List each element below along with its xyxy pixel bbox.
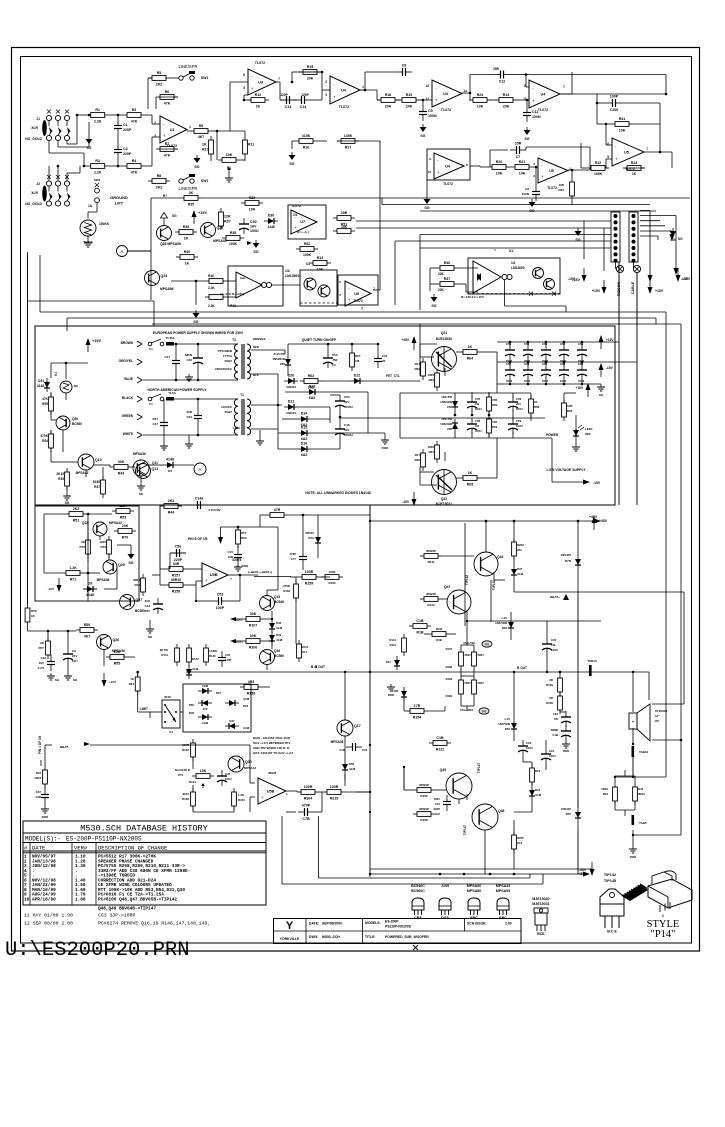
svg-text:R140: R140 [209,654,216,658]
svg-text:11R3: 11R3 [34,776,41,780]
svg-text:C1B: C1B [552,733,558,737]
svg-text:R70: R70 [122,536,129,540]
svg-text:C47: C47 [164,355,170,359]
svg-text:-45V: -45V [402,500,410,504]
svg-text:4148: 4148 [349,767,356,771]
svg-text:SW1: SW1 [201,76,208,80]
svg-text:4148: 4148 [202,721,209,725]
svg-text:D51: D51 [216,691,222,695]
svg-text:45R10: 45R10 [171,578,182,582]
svg-text:R35: R35 [188,203,195,207]
svg-text:R18: R18 [385,93,392,97]
svg-text:C37: C37 [36,790,42,794]
svg-text:1K: 1K [185,262,190,266]
svg-text:R215: R215 [330,797,339,801]
svg-text:T2: T2 [232,338,236,342]
svg-text:D53: D53 [505,727,511,731]
svg-text:R208: R208 [420,818,428,822]
svg-text:6: 6 [243,73,245,77]
svg-text:C22: C22 [551,638,557,642]
svg-text:R138: R138 [247,692,256,696]
svg-text:U9: U9 [354,292,359,296]
svg-text:7: 7 [646,147,648,151]
svg-text:100U: 100U [225,777,232,781]
svg-text:R22: R22 [595,161,601,165]
svg-text:16V: 16V [250,225,257,229]
svg-text:C51: C51 [382,354,388,358]
svg-text:10K: 10K [619,129,626,133]
svg-text:1: 1 [362,85,364,89]
svg-text:+15V: +15V [92,339,101,343]
svg-text:XLR: XLR [31,126,38,130]
svg-text:TAB5: TAB5 [639,821,647,825]
svg-text:R73: R73 [100,545,106,549]
svg-text:4148: 4148 [392,689,399,693]
svg-text:C53: C53 [217,593,224,597]
svg-text:Q26: Q26 [113,638,120,642]
svg-text:1N5261B: 1N5261B [272,357,286,361]
svg-text:1000: 1000 [427,373,434,377]
svg-text:-15V: -15V [48,587,54,591]
svg-text:F1: F1 [149,402,153,406]
svg-text:C100: C100 [610,108,619,112]
svg-text:25R: 25R [341,211,348,215]
svg-text:114R0: 114R0 [209,649,218,653]
svg-text:TL072: TL072 [255,61,265,65]
svg-text:3R3/2P: 3R3/2P [419,807,429,811]
svg-text:C24: C24 [549,749,555,753]
svg-text:R62: R62 [414,367,420,371]
svg-text:QUIET TURN ON/OFF: QUIET TURN ON/OFF [302,338,336,342]
svg-text:SG: SG [193,320,198,324]
svg-text:MJE15030: MJE15030 [532,897,549,901]
svg-text:1N5246B: 1N5246B [440,400,452,404]
svg-text:1000: 1000 [542,379,549,383]
svg-text:1K: 1K [468,471,473,475]
svg-text:R122: R122 [436,748,445,752]
svg-text:47R: 47R [274,508,281,512]
svg-text:MPSA56: MPSA56 [133,452,146,456]
svg-text:TAB12: TAB12 [639,750,649,754]
svg-text:R197: R197 [446,647,453,651]
svg-text:SG: SG [424,206,429,210]
svg-text:WHITE: WHITE [123,432,133,436]
svg-text:C53: C53 [344,395,350,399]
svg-text:T2.5A: T2.5A [168,391,176,395]
svg-text:MPSA93: MPSA93 [496,889,510,893]
svg-text:D49: D49 [189,711,195,715]
svg-text:D4: D4 [168,469,172,473]
svg-text:10: 10 [428,170,432,174]
svg-text:HOT, ADJUST TO 6mV +/-0.5: HOT, ADJUST TO 6mV +/-0.5 [253,751,294,755]
svg-text:RED: RED [585,432,591,436]
svg-text:6mV/COLD: 6mV/COLD [175,768,190,772]
svg-text:PC#6106 Q46,Q47 BDV65B->TIP142: PC#6106 Q46,Q47 BDV65B->TIP142 [98,897,177,902]
svg-text:50V: 50V [344,428,349,432]
svg-text:SG: SG [289,162,294,166]
svg-text:Q16: Q16 [274,649,280,653]
svg-text:2.00: 2.00 [505,922,512,926]
svg-text:100P: 100P [610,95,619,99]
svg-text:"P14": "P14" [651,929,676,940]
svg-text:D20: D20 [288,374,295,378]
svg-text:R40: R40 [184,250,191,254]
svg-text:BROWN: BROWN [121,341,134,345]
svg-text:R17: R17 [345,146,352,150]
svg-text:ROD: ROD [388,693,394,697]
svg-text:100U: 100U [475,429,482,433]
svg-text:R55: R55 [114,662,121,666]
svg-text:C1B: C1B [416,619,424,623]
svg-text:C14a: C14a [195,497,205,501]
svg-text:470P: 470P [289,552,296,556]
svg-text:TP1: TP1 [485,644,490,647]
svg-text:2214: 2214 [302,645,309,649]
svg-text:T1.25A: T1.25A [165,336,174,340]
svg-text:11 MAY 01/00 1.90: 11 MAY 01/00 1.90 [24,913,73,919]
svg-text:47K: 47K [164,154,171,158]
svg-text:A: A [120,249,123,254]
svg-text:1N5402: 1N5402 [560,553,571,557]
svg-text:1UB: 1UB [35,795,41,799]
svg-text:MPSA06: MPSA06 [467,884,481,888]
svg-text:TP2: TP2 [482,711,487,714]
svg-text:6A2: 6A2 [301,453,308,457]
svg-text:SG: SG [65,501,70,505]
svg-text:D46: D46 [276,621,282,625]
svg-text:ROD: ROD [563,749,569,753]
svg-text:68NB: 68NB [551,728,558,732]
svg-text:GROUND: GROUND [110,195,128,200]
svg-text:+: + [541,174,544,179]
svg-text:+: + [615,156,618,161]
svg-text:33078: 33078 [232,558,242,562]
svg-text:50HZ: 50HZ [225,359,233,363]
svg-text:4148: 4148 [202,684,209,688]
svg-text:100U: 100U [549,754,556,758]
svg-text:NOTE: ALL UNMARKED DIODES 1N41: NOTE: ALL UNMARKED DIODES 1N4148 [305,491,370,495]
svg-text:R141: R141 [161,653,168,657]
svg-text:GREEN: GREEN [122,414,134,418]
svg-text:R1B: R1B [416,631,424,635]
svg-text:2.2U: 2.2U [38,666,44,670]
svg-text:R49: R49 [134,583,140,587]
svg-text:100U: 100U [551,648,558,652]
svg-text:30K: 30K [250,634,257,638]
svg-text:220P: 220P [433,807,440,811]
svg-text:6A2: 6A2 [301,437,308,441]
svg-text:D7N: D7N [565,559,571,563]
svg-text:2K1: 2K1 [168,499,175,503]
svg-text:U1: U1 [170,128,175,132]
svg-text:4148: 4148 [37,384,44,388]
svg-text:TIP142: TIP142 [492,580,496,591]
svg-text:10K: 10K [226,153,233,157]
svg-text:C46: C46 [186,358,192,362]
svg-text:220P: 220P [174,558,183,562]
svg-text:47K: 47K [164,102,171,106]
svg-text:Q44: Q44 [497,555,504,559]
svg-text:2.2K: 2.2K [94,171,102,175]
svg-text:R3: R3 [132,108,137,112]
svg-text:1V0: 1V0 [203,707,208,711]
svg-text:BC546C: BC546C [411,884,425,888]
svg-text:1N4004: 1N4004 [286,385,296,389]
svg-text:R130: R130 [546,701,553,705]
svg-text:33U: 33U [144,599,150,603]
svg-text:1M5: 1M5 [567,404,573,408]
svg-text:6185: 6185 [93,480,100,484]
svg-text:1K2: 1K2 [517,841,523,845]
svg-text:EUROPEAN POWER SUPPLY SHOWN WI: EUROPEAN POWER SUPPLY SHOWN WIRED FOR 23… [153,331,244,335]
svg-text:D75: D75 [566,812,572,816]
svg-text:R160: R160 [329,581,336,585]
svg-text:2Z6: 2Z6 [447,405,452,409]
svg-text:Q22: Q22 [441,497,448,501]
svg-text:4.7R: 4.7R [339,748,345,752]
svg-text:14: 14 [463,89,467,93]
svg-text:10K: 10K [477,105,484,109]
svg-text:R161: R161 [238,798,245,802]
svg-text:MPSA06: MPSA06 [331,740,344,744]
svg-text:1000: 1000 [560,379,567,383]
svg-text:ROD: ROD [382,446,390,450]
svg-text:4016: 4016 [164,695,171,699]
svg-text:-45V: -45V [579,868,587,872]
svg-text:2T0B: 2T0B [283,584,290,588]
svg-text:1.25A: 1.25A [233,426,240,430]
svg-text:D16: D16 [301,442,308,446]
svg-text:100N: 100N [428,114,437,118]
svg-text:R71: R71 [70,578,77,582]
svg-text:CABLE: CABLE [631,281,635,294]
svg-text:D53: D53 [502,626,508,630]
svg-text:R162: R162 [182,748,189,752]
svg-text:C50: C50 [332,353,338,357]
svg-text:R101: R101 [189,780,196,784]
svg-text:EBC: EBC [499,916,507,920]
svg-text:BIAS - ADJUST R101 FOR: BIAS - ADJUST R101 FOR [253,736,291,740]
svg-text:2K19: 2K19 [56,472,64,476]
svg-text:1.80: 1.80 [75,897,86,902]
svg-text:XLR: XLR [31,191,38,195]
svg-text:100K: 100K [594,172,603,176]
svg-text:R205: R205 [517,836,524,840]
svg-text:SG: SG [524,137,529,141]
svg-text:2Z8: 2Z8 [447,427,452,431]
svg-text:4K7: 4K7 [414,453,420,457]
svg-text:+15V: +15V [109,680,116,684]
svg-text:3R3/2P: 3R3/2P [426,592,436,596]
svg-text:47K: 47K [42,397,49,401]
svg-text:10: 10 [24,897,30,902]
svg-text:4700U: 4700U [344,405,353,409]
svg-text:R41: R41 [619,117,626,121]
svg-text:BC560: BC560 [274,654,284,658]
svg-text:33078: 33078 [268,771,277,775]
svg-text:47R: 47R [492,398,497,402]
svg-text:+/-: +/- [236,564,240,568]
svg-text:U1: U1 [509,249,513,253]
svg-text:N=-15V,11=+15V: N=-15V,11=+15V [461,295,484,299]
svg-text:C30: C30 [250,220,257,224]
svg-text:SG: SG [172,214,177,218]
svg-text:2.2K: 2.2K [208,304,215,308]
svg-text:SEP/08/2000: SEP/08/2000 [322,922,342,926]
svg-text:SG: SG [431,304,436,308]
svg-text:R34: R34 [558,188,564,192]
svg-text:100U: 100U [516,407,523,411]
svg-text:1.4V: 1.4V [501,616,507,620]
svg-text:TL072: TL072 [441,108,451,112]
svg-text:D4?: D4? [386,660,392,664]
svg-text:C9: C9 [72,649,76,653]
svg-text:220P: 220P [123,152,132,156]
svg-text:Q27: Q27 [136,598,143,602]
svg-text:MJE15030: MJE15030 [436,337,453,341]
svg-text:MPSA43: MPSA43 [213,239,227,243]
svg-text:TITLE:: TITLE: [365,935,376,939]
svg-text:100K: 100K [303,253,312,257]
svg-text:22K: 22K [438,288,445,292]
svg-text:SG: SG [599,393,604,397]
svg-text:D30: D30 [268,214,275,218]
svg-text:R16: R16 [303,146,310,150]
svg-text:2.2K: 2.2K [94,120,102,124]
svg-text:R142: R142 [192,657,199,661]
svg-text:R154: R154 [413,716,422,720]
svg-text:R43: R43 [603,792,609,796]
svg-text:R45: R45 [58,477,64,481]
svg-text:R107: R107 [249,624,258,628]
svg-text:R57: R57 [355,354,361,358]
svg-text:100R: 100R [329,570,337,574]
svg-text:LINE/SPR: LINE/SPR [178,64,197,69]
svg-text:D47: D47 [517,567,523,571]
svg-text:C3: C3 [123,147,128,151]
svg-text:U4: U4 [169,730,173,734]
svg-text:C45: C45 [225,772,231,776]
svg-text:R62: R62 [308,374,315,378]
svg-text:SG: SG [678,237,683,241]
svg-text:+15V: +15V [592,289,601,293]
svg-text:R23: R23 [631,161,637,165]
svg-text:SG: SG [128,561,133,565]
svg-text:ROD: ROD [242,564,250,568]
svg-text:100N: 100N [532,115,541,119]
svg-text:C8: C8 [525,187,529,191]
svg-text:SW2: SW2 [94,178,101,182]
svg-text:B C E: B C E [607,930,617,934]
svg-text:F1: F1 [149,347,153,351]
svg-text:TL072: TL072 [538,108,548,112]
svg-text:1N5746B: 1N5746B [498,722,510,726]
svg-text:U5B: U5B [210,573,218,577]
svg-text:LM13600: LM13600 [285,274,299,278]
svg-text:100V: 100V [433,797,440,801]
svg-text:D11: D11 [288,400,294,404]
svg-text:C5: C5 [428,109,433,113]
svg-text:1N5246B: 1N5246B [440,422,452,426]
svg-text:R163: R163 [182,797,189,801]
svg-text:U5B: U5B [267,789,275,793]
svg-text:PC#6274 REMOVE Q16,19 R146,147: PC#6274 REMOVE Q16,19 R146,147,148,149, [98,921,210,927]
svg-text:BBAT+: BBAT+ [550,595,560,599]
svg-text:C59: C59 [516,419,522,423]
svg-text:2K740: 2K740 [160,648,169,652]
svg-text:10K: 10K [114,650,121,654]
svg-text:470P: 470P [302,804,311,808]
svg-text:R19: R19 [36,771,42,775]
svg-text:Q28 MPSA56: Q28 MPSA56 [160,242,181,246]
svg-text:ROD: ROD [42,815,48,819]
svg-text:R50: R50 [84,623,91,627]
svg-text:2.2K: 2.2K [208,286,215,290]
svg-text:M530.SCH DATABASE HISTORY: M530.SCH DATABASE HISTORY [80,824,208,834]
svg-text:17R: 17R [414,704,421,708]
svg-text:bias: bias [240,276,246,280]
svg-text:R53: R53 [241,536,247,540]
svg-text:R210: R210 [427,603,435,607]
svg-text:C7B: C7B [302,817,310,821]
svg-text:R19: R19 [535,769,541,773]
svg-text:R106: R106 [249,646,258,650]
svg-text:0R27: 0R27 [465,653,472,657]
svg-text:BRN/BLK: BRN/BLK [253,337,266,341]
svg-text:+: + [333,94,336,99]
svg-text:R24: R24 [477,93,484,97]
svg-text:2K2: 2K2 [156,186,163,190]
svg-text:NORTH AMERICAN POWER SUPPLY: NORTH AMERICAN POWER SUPPLY [147,388,207,392]
svg-text:20K: 20K [406,105,413,109]
svg-text:MPSA43: MPSA43 [496,884,510,888]
svg-text:R44: R44 [168,511,175,515]
svg-text:MJE15031: MJE15031 [532,902,549,906]
svg-text:TAB10: TAB10 [587,659,597,663]
svg-text:34R: 34R [173,562,180,566]
svg-text:2: 2 [325,80,327,84]
svg-text:R20: R20 [496,160,503,164]
svg-text:Q48,Q49 BDV64B->TIP147: Q48,Q49 BDV64B->TIP147 [98,907,156,912]
svg-text:100U: 100U [516,424,523,428]
svg-text:MPSA56: MPSA56 [467,889,481,893]
svg-text:MPSA43: MPSA43 [109,521,122,525]
svg-text:R198: R198 [446,665,453,669]
svg-text:BCE: BCE [537,932,545,936]
svg-text:1: 1 [189,125,191,129]
svg-text:TL072: TL072 [443,182,453,186]
svg-text:30K: 30K [250,612,257,616]
svg-text:R157: R157 [172,574,181,578]
svg-text:20K: 20K [307,77,314,81]
svg-text:B OUT: B OUT [517,666,527,670]
svg-text:R21: R21 [519,160,526,164]
svg-text:1U: 1U [332,363,336,367]
svg-text:(+aBAT-,+aBAT+): (+aBAT-,+aBAT+) [248,570,272,574]
svg-text:1K: 1K [256,105,261,109]
svg-text:R5: R5 [157,71,162,75]
svg-text:R209: R209 [420,794,428,798]
svg-text:R112: R112 [389,643,396,647]
svg-text:U7: U7 [300,220,305,224]
svg-text:C1B: C1B [436,736,444,740]
svg-text:R24: R24 [129,682,135,686]
svg-text:Q25: Q25 [217,226,224,230]
svg-text:EBC: EBC [470,916,478,920]
svg-text:24V: 24V [72,654,77,658]
svg-text:+: + [163,134,166,139]
svg-text:1M: 1M [355,359,360,363]
